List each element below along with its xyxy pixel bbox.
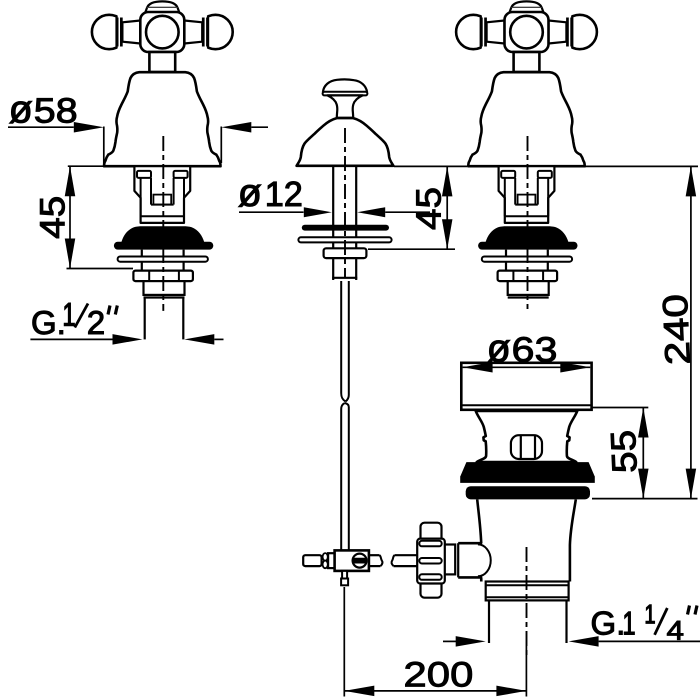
left tap bell-shaped body xyxy=(104,72,220,166)
dimension 55 (drain) xyxy=(592,408,698,499)
left tap handle right collar xyxy=(202,18,209,47)
right tap washer xyxy=(482,257,572,262)
right tap handle right collar xyxy=(566,18,573,47)
right tap valve neck xyxy=(514,52,540,72)
pop-up tube top washer (black) xyxy=(302,225,389,231)
left tap handle left ball xyxy=(92,13,141,51)
left tap handle hub circle xyxy=(146,16,179,49)
dimension Ø58 text xyxy=(10,98,76,123)
left tap valve neck xyxy=(149,52,175,72)
right tap handle hub xyxy=(505,12,549,52)
left tap handle right arm xyxy=(184,21,202,44)
dimension Ø12 leader and arrows xyxy=(239,207,430,217)
drain side port tube xyxy=(458,543,482,577)
left tap washer xyxy=(118,257,208,262)
right tap handle left ball xyxy=(456,13,505,51)
dimension G.1 1/4 inch text xyxy=(592,605,697,640)
right tap handle left collar xyxy=(480,18,487,47)
clamp lower tail xyxy=(341,571,348,585)
right tap handle top cap xyxy=(510,1,544,12)
clamp screw xyxy=(353,554,367,568)
dimension G.1/2 inch text xyxy=(33,303,118,334)
left tap handle hub xyxy=(140,12,184,52)
drain body xyxy=(477,499,576,581)
dimension 200 line and arrows xyxy=(344,587,526,697)
knurled control knob xyxy=(417,523,445,598)
left tap handle left arm xyxy=(122,21,140,44)
left tap inlet pipe xyxy=(145,298,184,340)
right tap handle hub circle xyxy=(510,16,543,49)
pop-up assembly centerline xyxy=(344,128,346,278)
dimension Ø63 arrows xyxy=(463,362,591,373)
drain threaded outlet xyxy=(486,582,569,601)
left tap handle right ball xyxy=(184,13,233,51)
pop-up tube thin washer xyxy=(298,237,391,242)
horizontal rod right section with break xyxy=(369,555,418,566)
dimension 200 text xyxy=(406,662,472,687)
left tap rubber gasket (black cone) xyxy=(114,226,213,249)
left tap valve stem xyxy=(134,166,190,223)
dimension 240 (overall height) xyxy=(585,166,698,498)
linkage spring clip xyxy=(323,553,335,568)
right tap valve stem xyxy=(499,166,555,223)
pop-up lift rod upper xyxy=(341,281,349,402)
right tap bell-shaped body xyxy=(468,72,584,166)
side port adapter ring xyxy=(443,545,455,575)
drain top gasket (black cone) xyxy=(460,462,595,483)
pop-up lift rod lower xyxy=(341,403,349,550)
right tap mounting nut xyxy=(498,271,557,282)
dimension 45 (pop-up assembly) xyxy=(368,166,467,249)
dimension Ø58 leader and arrows xyxy=(8,122,268,165)
left tap threaded shank xyxy=(144,281,185,297)
drain centerline xyxy=(526,547,528,655)
dimension 45 (left tap) xyxy=(40,166,150,268)
right tap centerline xyxy=(527,136,529,309)
left tap centerline xyxy=(162,136,164,311)
right tap threaded shank xyxy=(508,281,549,297)
dimension G.1 1/4 leader and arrows xyxy=(443,636,700,647)
drain bottom gasket ring (black) xyxy=(466,486,590,499)
right tap handle right arm xyxy=(549,21,567,44)
horizontal linkage rod left section xyxy=(303,555,321,566)
pop-up knob cap xyxy=(323,79,368,95)
left tap handle left collar xyxy=(115,18,122,47)
right tap rubber gasket (black cone) xyxy=(478,226,577,249)
right tap stem segment xyxy=(506,250,548,271)
left tap mounting nut xyxy=(133,271,193,282)
drain neck xyxy=(476,411,578,462)
drain flange xyxy=(461,363,591,410)
pop-up knob bell xyxy=(297,118,394,166)
pop-up tube nut xyxy=(324,248,367,258)
left tap stem segment xyxy=(142,250,184,271)
linkage T-clamp block xyxy=(335,550,369,571)
right tap handle right ball xyxy=(548,13,597,51)
pop-up rod guide tube xyxy=(332,166,357,280)
pop-up knob waist xyxy=(327,95,362,117)
dimension G.1/2 leader and arrows xyxy=(30,334,223,345)
right tap handle left arm xyxy=(487,21,505,44)
dimension Ø12 text xyxy=(239,182,301,207)
left tap handle top cap xyxy=(145,1,179,12)
dimension Ø63 text xyxy=(488,337,556,362)
drain outlet pipe xyxy=(489,600,567,643)
drain overflow slot xyxy=(511,435,542,459)
